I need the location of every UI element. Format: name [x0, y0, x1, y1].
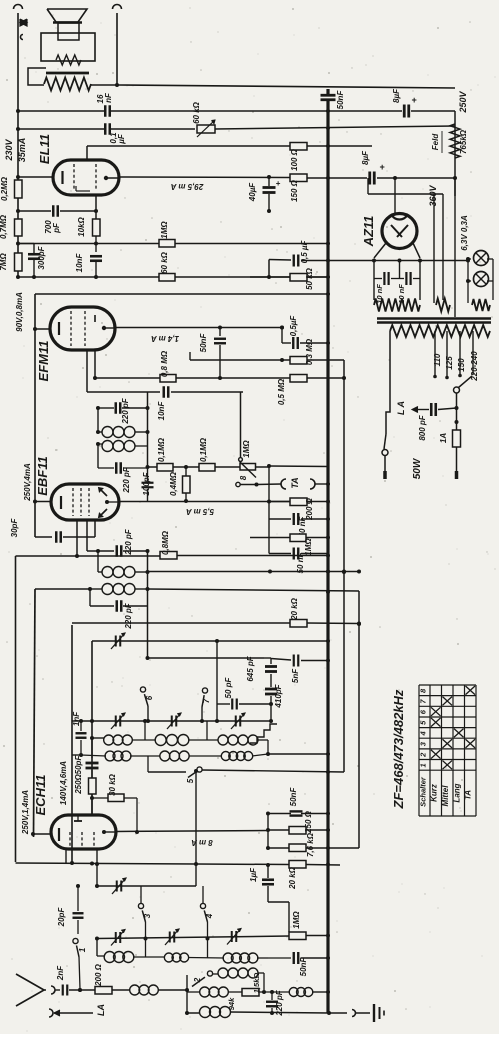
wire 60k rail	[18, 276, 159, 278]
EBF11 bottom leads	[76, 519, 78, 556]
wire 0,1M rail	[148, 466, 158, 468]
tube EL11	[53, 160, 119, 195]
ground symbol	[373, 1004, 375, 1022]
capacitor 10nF fil b	[400, 278, 405, 280]
switch 3	[140, 886, 142, 903]
svg-text:90V,0,8mA: 90V,0,8mA	[15, 292, 24, 332]
wire coil rail 738	[92, 737, 104, 739]
svg-text:EL11: EL11	[37, 134, 52, 164]
wire 10nF rail	[87, 391, 160, 393]
svg-text:1µF: 1µF	[249, 867, 258, 882]
resistor 7M	[15, 253, 23, 271]
wire coil rail 755	[72, 754, 81, 756]
svg-text:150 Ω: 150 Ω	[290, 179, 299, 202]
svg-text:4: 4	[419, 731, 428, 737]
trimmer osc2	[116, 881, 118, 892]
resistor 1M osc with arm	[240, 464, 256, 471]
AZ11 lead left	[374, 243, 386, 258]
wire heater mid vertical	[442, 194, 444, 300]
svg-text:35mA: 35mA	[17, 138, 27, 163]
wire 641 column down	[216, 641, 218, 721]
svg-text:ZF=468/473/482kHz: ZF=468/473/482kHz	[391, 689, 406, 809]
svg-text:+: +	[411, 95, 417, 105]
tube EBF11	[51, 484, 119, 520]
fuse 1A	[453, 430, 461, 447]
wire avc left corner	[15, 556, 17, 862]
speaker cone	[47, 9, 87, 22]
svg-text:110: 110	[433, 353, 442, 366]
svg-text:7,6 kΩ: 7,6 kΩ	[306, 832, 315, 857]
svg-text:Schalter: Schalter	[419, 776, 428, 807]
svg-text:5: 5	[186, 778, 195, 783]
table crosses	[431, 750, 441, 759]
wire 8uF to corner	[411, 110, 455, 112]
trimmer band c	[231, 931, 233, 942]
svg-text:1: 1	[78, 947, 87, 952]
winding primary	[390, 325, 490, 337]
jack LA bottom	[49, 1009, 53, 1017]
svg-text:0,7MΩ: 0,7MΩ	[0, 214, 8, 239]
wire 641 rail to bus	[217, 640, 328, 642]
switch 5 wire	[148, 771, 186, 773]
svg-text:7: 7	[202, 698, 211, 703]
svg-text:1A: 1A	[439, 433, 448, 443]
resistor 50k	[290, 274, 307, 282]
wire 76k rail	[268, 847, 289, 849]
terminal post left	[14, 5, 23, 10]
wire coil row bottom	[97, 955, 105, 957]
resistor 0,2M	[15, 180, 23, 198]
svg-text:L A: L A	[396, 401, 406, 415]
bus joints	[326, 570, 330, 574]
svg-text:0,4MΩ: 0,4MΩ	[169, 471, 178, 496]
svg-text:1: 1	[419, 763, 428, 767]
svg-text:125: 125	[445, 356, 454, 370]
wire 5nF rail	[250, 659, 291, 661]
svg-text:410pF: 410pF	[274, 683, 283, 708]
wire 220pF det branch	[87, 550, 113, 552]
switch table grid	[419, 685, 476, 816]
wire bracket to field coil	[28, 68, 46, 85]
wire 658 rail	[148, 657, 265, 659]
plug symbol	[20, 19, 27, 26]
coil trap	[200, 1007, 211, 1018]
resistor 0,1M a	[157, 464, 173, 472]
tube AZ11	[382, 214, 417, 249]
svg-text:200 Ω: 200 Ω	[94, 963, 103, 987]
capacitor 40uF	[268, 177, 270, 186]
svg-text:1MΩ: 1MΩ	[292, 911, 301, 929]
capacitor 50nF ta	[269, 518, 291, 520]
wire LC right column	[147, 392, 149, 467]
wire det right column	[147, 551, 149, 658]
trimmer band b	[169, 932, 171, 943]
tube EFM11	[50, 307, 115, 350]
svg-text:8: 8	[239, 475, 248, 480]
wire 0,5M rail	[282, 377, 290, 379]
resistor 30k	[107, 794, 109, 801]
EBF11 anode lead	[105, 500, 109, 504]
jack TA left	[281, 479, 286, 489]
wire AZ11 anode lead	[394, 178, 396, 214]
coil antenna series	[130, 985, 140, 995]
resistor 150ohm	[290, 174, 307, 182]
bandfilter coil upper	[98, 431, 102, 433]
resistor 0,1M b	[199, 464, 215, 472]
wire 0,3M rail	[189, 352, 191, 360]
svg-text:10kΩ: 10kΩ	[77, 216, 86, 236]
wire 5,5mA rail	[119, 501, 186, 503]
coil sel b	[200, 987, 210, 997]
svg-text:60 kΩ: 60 kΩ	[192, 101, 201, 124]
svg-text:10nF: 10nF	[157, 401, 166, 421]
ECH11 osc anode	[74, 820, 82, 822]
wire 90V rail corner	[34, 294, 36, 537]
wire avc ground rail	[16, 863, 197, 864]
wire row1 tank links	[144, 721, 146, 740]
svg-text:300pF: 300pF	[37, 245, 46, 269]
capacitor 50pF osc	[217, 703, 230, 705]
resistor 200ohm ta	[250, 501, 290, 503]
svg-text:Lang: Lang	[453, 783, 462, 802]
wire antenna post down	[17, 13, 19, 277]
wire pot to bus and 250V corner	[215, 126, 455, 129]
capacitor 0,5uF anode	[292, 337, 294, 349]
core bar	[46, 72, 89, 75]
svg-text:50W: 50W	[412, 457, 423, 479]
small hook on post	[21, 35, 24, 40]
output transformer frame	[41, 33, 95, 61]
wire det rail to avc	[148, 589, 360, 591]
terminal post right	[113, 5, 122, 10]
coil band sel a	[213, 973, 218, 975]
wire 360V line down	[454, 178, 456, 317]
EFM11 anode	[102, 326, 106, 330]
EBF11 diode plates	[99, 488, 107, 496]
resistor 100ohm screen	[290, 143, 307, 151]
svg-text:220 pF: 220 pF	[122, 466, 131, 493]
resistor 0,4M	[185, 467, 187, 476]
resistor 0,8M det	[160, 552, 177, 560]
coil bot c	[223, 953, 233, 963]
wire primary left down	[386, 331, 390, 434]
capacitor 220pF det	[87, 550, 114, 552]
svg-text:TA: TA	[464, 790, 473, 800]
svg-text:0,3 MΩ: 0,3 MΩ	[305, 338, 314, 365]
svg-text:8 m A: 8 m A	[191, 838, 213, 847]
wire to ground	[329, 1012, 347, 1014]
resistor 250ohm	[91, 770, 93, 778]
capacitor 50nF mid	[268, 813, 291, 815]
resistor 1,5k	[242, 989, 259, 997]
trimmer tune b	[171, 716, 173, 727]
svg-text:150: 150	[457, 358, 466, 372]
capacitor 8uF lower	[368, 172, 371, 185]
capacitor 1uF	[267, 865, 269, 878]
svg-text:1nF: 1nF	[72, 711, 81, 726]
svg-text:0,2MΩ: 0,2MΩ	[0, 176, 9, 201]
capacitor 410pF	[270, 674, 272, 687]
capacitor 5nF	[271, 659, 291, 661]
svg-text:50nF: 50nF	[199, 333, 208, 353]
wire tuning rail 721	[72, 720, 271, 722]
resistor 0,3M	[290, 357, 307, 365]
wire corner 269 down	[268, 519, 270, 554]
svg-text:EBF11: EBF11	[35, 456, 50, 496]
capacitor 50nF b	[269, 553, 291, 555]
wire link to 1M switch	[240, 392, 242, 457]
svg-text:1MΩ: 1MΩ	[242, 440, 251, 458]
svg-text:250V,1,4mA: 250V,1,4mA	[21, 790, 30, 835]
svg-text:Feld: Feld	[431, 133, 440, 151]
AZ11 lead right	[413, 243, 420, 258]
tap 220-240	[472, 331, 474, 375]
wire field coil to supply rail	[91, 84, 117, 86]
switch 1	[73, 938, 78, 943]
jack ground	[352, 1010, 356, 1017]
capacitor 50pF cath	[91, 738, 93, 758]
bandfilter cap 220pF upper	[98, 407, 114, 409]
svg-text:250Ω: 250Ω	[74, 773, 83, 794]
capacitor 0,5uF out	[293, 255, 295, 267]
wire ta jacks	[315, 483, 328, 485]
svg-text:29,5 m A: 29,5 m A	[170, 182, 204, 191]
switch 5	[197, 767, 202, 772]
svg-text:2: 2	[419, 752, 428, 758]
svg-text:AZ11: AZ11	[361, 216, 376, 248]
antenna symbol	[16, 974, 44, 1006]
wire bottom rail	[187, 1012, 200, 1014]
wire avc right column	[358, 591, 360, 848]
wire 250V corner down	[454, 111, 456, 178]
svg-text:7MΩ: 7MΩ	[0, 253, 8, 271]
svg-text:6,3V 0,3A: 6,3V 0,3A	[460, 215, 469, 251]
svg-text:50pF: 50pF	[74, 755, 83, 775]
resistor 1M ta	[250, 537, 290, 539]
coil band1 a	[104, 735, 114, 745]
svg-text:765kΩ: 765kΩ	[459, 129, 468, 154]
switch 2	[207, 971, 212, 976]
svg-text:pF: pF	[52, 222, 61, 234]
bandfilter2 frame	[97, 551, 99, 572]
svg-text:50 nF: 50 nF	[296, 551, 305, 573]
svg-text:LA: LA	[96, 1004, 106, 1016]
resistor 0,8M	[160, 375, 176, 383]
resistor 0,5M	[290, 375, 307, 383]
svg-text:100 Ω: 100 Ω	[290, 148, 299, 171]
wire 8mA rail	[116, 831, 268, 832]
EBF11 grids	[72, 488, 74, 516]
wire 30pF branch	[35, 536, 52, 538]
coil band2 b	[160, 751, 170, 761]
coil bot b	[164, 953, 173, 962]
transformer core	[377, 317, 491, 320]
bus main vertical	[326, 89, 329, 94]
EFM11 cathode	[58, 322, 60, 335]
ECH11 bottom leads	[65, 848, 67, 863]
capacitor 0,1uF	[104, 123, 107, 135]
arrow LA	[54, 1012, 93, 1014]
capacitor 220pF bottom	[271, 992, 273, 1000]
resistor 0,7M	[15, 219, 23, 236]
svg-text:250V,4mA: 250V,4mA	[23, 463, 32, 502]
jack TA right	[310, 479, 315, 489]
wire mains right	[456, 393, 458, 408]
capacitor 10nF vert	[90, 255, 102, 258]
wire bot links	[96, 939, 98, 957]
svg-text:0,5µF: 0,5µF	[289, 315, 298, 337]
wire 16nF rail	[18, 110, 104, 112]
svg-text:360V: 360V	[428, 184, 438, 206]
lamp leads	[468, 258, 471, 260]
wire heater loop	[367, 178, 369, 194]
EFM11 eye target	[94, 315, 96, 322]
bandfilter2 coil	[98, 571, 102, 573]
capacitor 10nF series	[163, 386, 166, 398]
capacitor 20pF	[77, 886, 79, 911]
wire 35 corner2 down	[34, 589, 36, 837]
wire EFM bottom leads	[86, 349, 88, 392]
svg-text:50 kΩ: 50 kΩ	[305, 267, 314, 290]
resistor 20k	[290, 620, 307, 628]
ECH11 grids	[69, 832, 71, 846]
capacitor 50nF efm	[219, 328, 221, 337]
svg-text:Mittel: Mittel	[441, 785, 450, 807]
svg-text:50nF: 50nF	[299, 957, 308, 977]
potentiometer 60k	[197, 125, 215, 133]
svg-text:3: 3	[143, 913, 152, 918]
bandfilter frame	[97, 408, 99, 432]
svg-text:5,5 m A: 5,5 m A	[186, 507, 214, 516]
svg-text:645 pF: 645 pF	[246, 655, 255, 681]
wire ta rail top	[269, 465, 328, 468]
coil band2 a	[105, 751, 115, 761]
capacitor 10nF fil a	[374, 278, 382, 280]
wire nested rail 641	[91, 641, 93, 815]
capacitor 30pF	[55, 531, 58, 543]
svg-text:100pF: 100pF	[142, 471, 151, 495]
svg-text:40µF: 40µF	[248, 182, 257, 203]
svg-text:20pF: 20pF	[57, 907, 66, 928]
capacitor 1nF	[80, 721, 82, 731]
svg-text:250V: 250V	[458, 90, 468, 113]
ECH11 anode	[102, 830, 106, 834]
svg-text:6: 6	[145, 695, 154, 700]
speaker magnet	[58, 23, 79, 40]
resistor 1M	[159, 240, 175, 248]
ECH11 cathode	[58, 828, 60, 841]
bandfilter cap lower 220pF	[98, 467, 114, 469]
winding mid	[436, 299, 450, 312]
wire 0,5uF branch	[280, 326, 284, 330]
coil bot a	[104, 952, 115, 963]
svg-text:0,5 MΩ: 0,5 MΩ	[277, 378, 286, 405]
wire 250ohm rail	[268, 829, 289, 831]
EL11 anode	[104, 176, 108, 180]
trimmer osc 641	[115, 636, 117, 647]
wire vertical feed left TA	[268, 466, 270, 519]
capacitor 8uF upper	[403, 105, 406, 118]
wire grid rail 700pF	[18, 210, 51, 212]
capacitor 100pF	[147, 467, 149, 481]
coil band2 c	[221, 752, 230, 761]
EL11 bottom lead	[95, 194, 97, 219]
gang staircase	[250, 724, 277, 743]
wire right post down	[116, 13, 118, 85]
wire row2 to bus	[268, 753, 328, 755]
EL11 grid1	[73, 164, 75, 191]
winding lamp	[472, 299, 490, 311]
svg-text:10nF: 10nF	[75, 253, 84, 273]
resistor 60k	[159, 274, 175, 282]
coil band1 c	[218, 735, 228, 745]
trimmer band a	[115, 932, 117, 943]
capacitor 50nF bus	[321, 94, 336, 97]
switch 8	[236, 482, 240, 486]
wire 300pF branch	[18, 243, 34, 245]
svg-text:20 kΩ: 20 kΩ	[288, 866, 297, 890]
field coil winding	[44, 78, 91, 91]
ECH11 cathode lead	[33, 833, 51, 835]
wire ant junction down	[186, 975, 188, 1013]
resistor 200ohm ant	[95, 987, 112, 995]
svg-text:4: 4	[205, 913, 214, 919]
wire 0,1uF rail	[18, 128, 104, 130]
switch top circle	[239, 458, 243, 462]
svg-text:800 pF: 800 pF	[418, 414, 427, 440]
capacitor 800pF	[430, 403, 433, 416]
EL11 screen lead top	[86, 146, 88, 161]
svg-text:5nF: 5nF	[291, 668, 300, 683]
capacitor 50nF bottom	[268, 957, 291, 959]
bandfilter3 cap 220pF	[89, 589, 91, 606]
EL11 internal connect	[75, 186, 77, 191]
svg-text:0,1MΩ: 0,1MΩ	[199, 437, 208, 462]
wire 268 column	[267, 814, 269, 849]
svg-text:220 pF: 220 pF	[121, 397, 130, 424]
svg-text:30pF: 30pF	[10, 518, 19, 538]
svg-text:50nF: 50nF	[336, 90, 345, 110]
svg-text:230V: 230V	[4, 138, 14, 161]
wire band rail 938	[97, 936, 289, 939]
svg-text:2nF: 2nF	[56, 965, 65, 981]
svg-text:0,8 MΩ: 0,8 MΩ	[160, 350, 169, 377]
lamp dial b	[474, 272, 489, 287]
wire 1,4mA rail	[115, 327, 282, 329]
svg-text:2: 2	[193, 977, 202, 983]
trimmer tune c	[235, 716, 237, 727]
wire 50k rail	[250, 276, 290, 278]
wire osc grid rail	[97, 885, 196, 887]
switch 4	[202, 886, 204, 903]
svg-text:nF: nF	[104, 92, 113, 103]
wire anode rail 150ohm	[18, 176, 53, 178]
capacitor 700pF	[52, 205, 55, 217]
wire 571 rail	[148, 571, 360, 573]
svg-text:+: +	[276, 179, 281, 188]
switch 6	[140, 687, 145, 692]
svg-text:1,4 m A: 1,4 m A	[151, 334, 179, 343]
wire 1M rail	[18, 243, 159, 245]
wire right link 344	[343, 360, 345, 772]
taps	[434, 331, 436, 375]
svg-text:60 kΩ: 60 kΩ	[160, 251, 169, 274]
capacitor 300pF	[28, 253, 40, 256]
svg-text:8µF: 8µF	[392, 88, 401, 103]
EFM11 grids	[70, 311, 72, 346]
mains pin left	[384, 456, 386, 471]
wire 196 column	[195, 771, 197, 886]
